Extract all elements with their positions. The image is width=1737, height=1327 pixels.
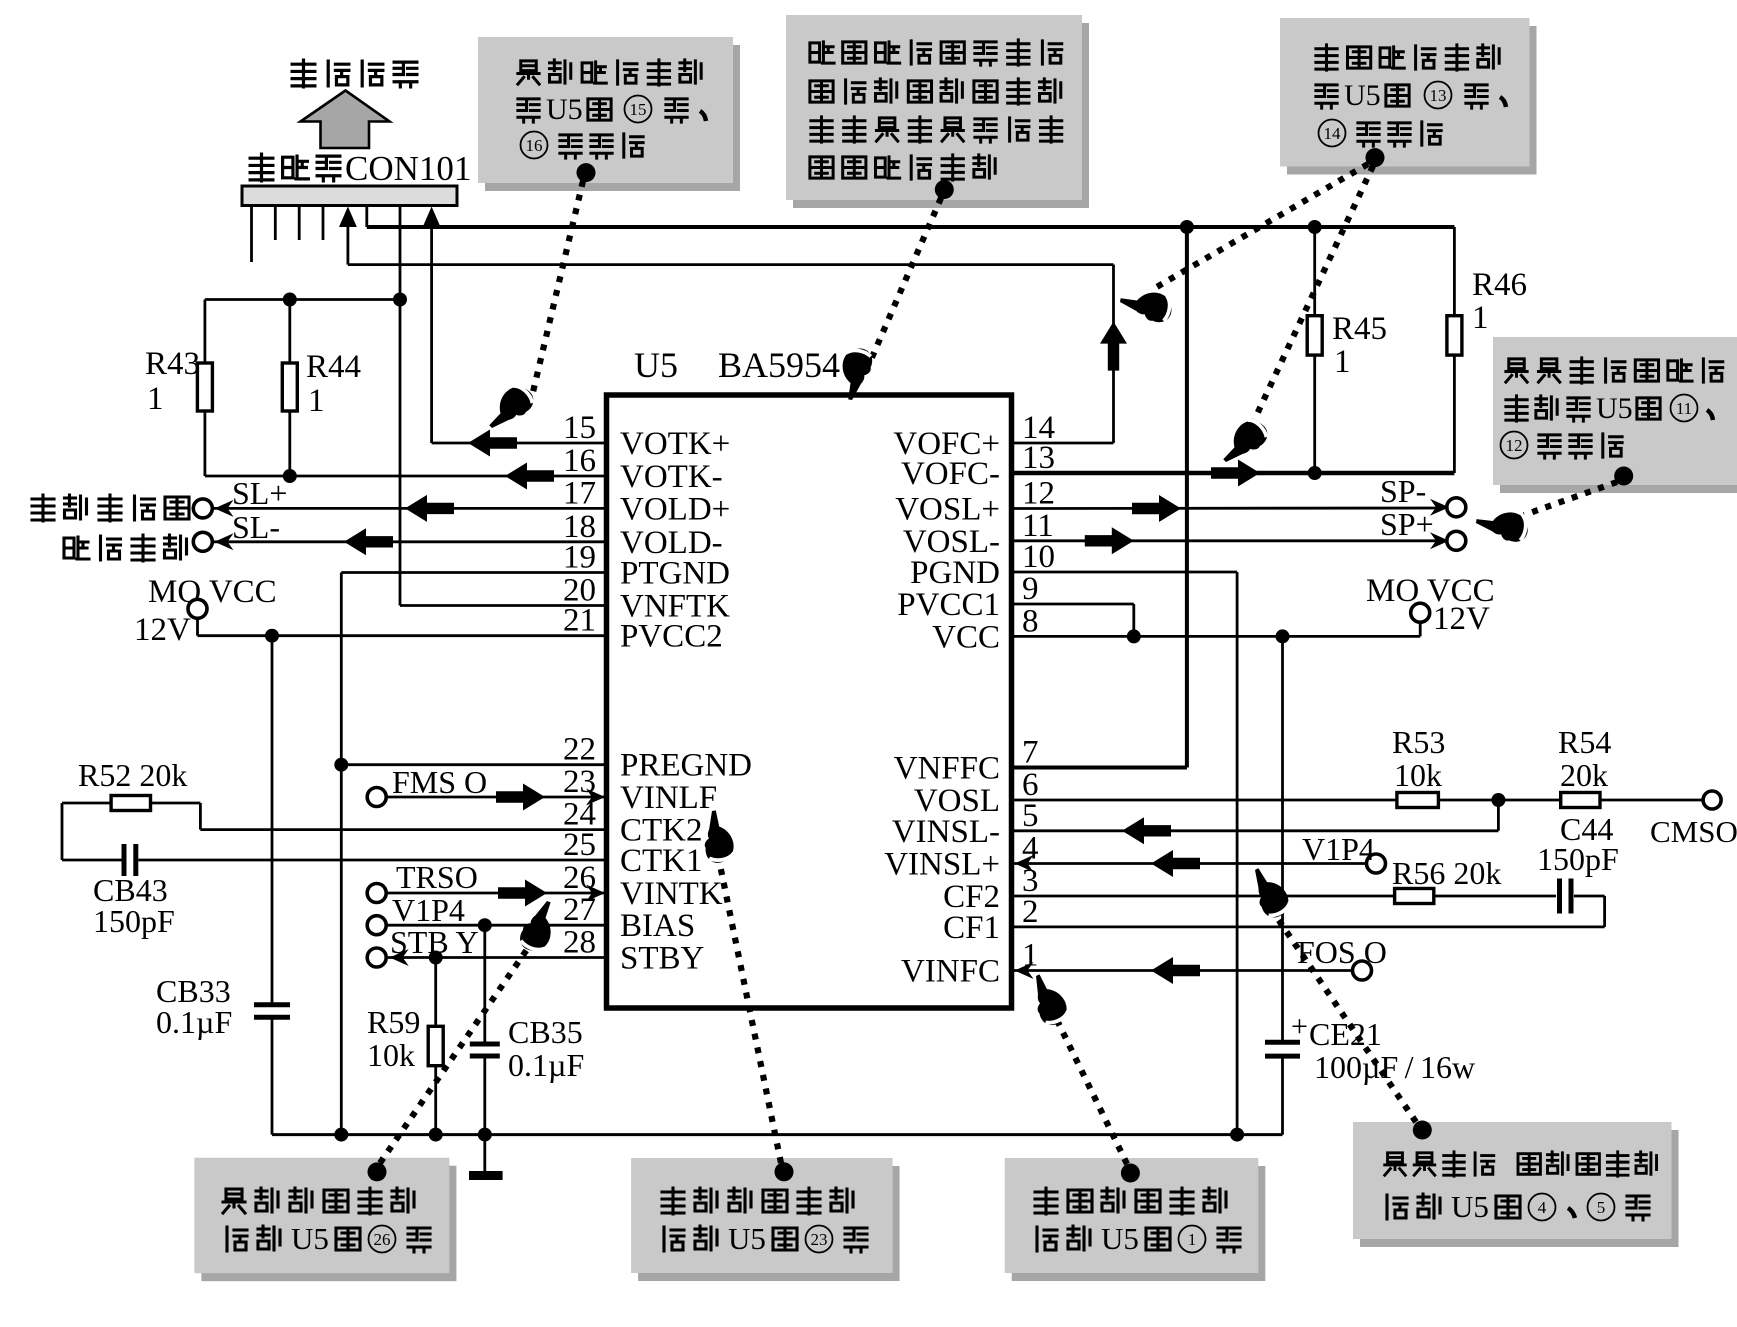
svg-text:13: 13 <box>1430 86 1447 105</box>
svg-text:100µF / 16w: 100µF / 16w <box>1314 1049 1475 1085</box>
leader dot callout 6 <box>775 1162 794 1181</box>
terminal SL+ <box>193 499 212 518</box>
wire pin 9 (PVCC1 to VCC wire) <box>1012 604 1134 636</box>
pointing hand at IC top <box>837 346 874 402</box>
label R59 / 10k <box>367 1004 420 1073</box>
leader dotted line callout 7 <box>1053 1012 1127 1164</box>
svg-text:CON101: CON101 <box>345 149 471 188</box>
capacitor CE21 (electrolytic) <box>1265 636 1300 1134</box>
label: to laser head (接激光头) <box>292 60 417 87</box>
svg-text:1: 1 <box>1188 1230 1197 1249</box>
svg-text:R43: R43 <box>145 346 200 382</box>
arrowhead into pin 26 <box>586 885 605 902</box>
svg-text:1: 1 <box>308 383 325 419</box>
leader dotted line callout 6 <box>719 860 781 1163</box>
svg-text:U5: U5 <box>291 1221 329 1256</box>
pointing hand at pin 26 <box>517 896 562 955</box>
leader dotted line callout 1 <box>533 181 583 392</box>
leader dotted line callout 8 <box>1265 900 1416 1122</box>
label 进给电动机驱动信号 <box>32 495 189 561</box>
wire pin 22 (PREGND to PTGND riser) <box>341 763 606 766</box>
wire pin 2 (CF1) <box>1012 926 1605 929</box>
svg-text:11: 11 <box>1676 399 1692 418</box>
svg-text:12: 12 <box>1022 476 1055 512</box>
label R44 / value 1 <box>306 349 361 419</box>
svg-text:14: 14 <box>1324 124 1342 143</box>
resistor R53 <box>1012 793 1499 808</box>
svg-text:0.1µF: 0.1µF <box>156 1004 232 1040</box>
callout: tracking drive signal from pins 15,16 <box>485 45 740 191</box>
wire pin 16 (VOTK- to R43/R44 bottom rail) <box>205 475 607 478</box>
signal arrow pin 16 <box>505 463 554 490</box>
arrowhead into pin 23 <box>586 789 605 806</box>
terminal FOS O <box>1353 961 1372 980</box>
signal arrow pin 14 (up) <box>1100 322 1127 371</box>
ground rail (bottom bus) <box>272 1133 1283 1136</box>
arrowhead at SL- <box>215 533 234 550</box>
wire: top bus (CON101 to R46) <box>367 225 1455 229</box>
wire pin 10 (PGND riser to ground rail) <box>1012 572 1238 1135</box>
junction R45 bottom <box>1308 466 1322 480</box>
svg-text:16: 16 <box>563 443 596 479</box>
wire pin 4 (VINSL+ from V1P4) <box>1012 862 1367 865</box>
wire pin 25 (CTK1 to CB43) <box>138 859 606 862</box>
leader dotted line callout 4 <box>1524 482 1617 515</box>
svg-text:U5: U5 <box>728 1221 766 1256</box>
leader dot callout 4 <box>1614 467 1633 486</box>
callout: focus drive signal from pins 13,14 <box>1287 26 1537 175</box>
leader dot callout 5 <box>368 1162 387 1181</box>
svg-text:FOS O: FOS O <box>1297 934 1387 970</box>
svg-text:19: 19 <box>563 540 596 576</box>
leader dotted line callout 5 <box>380 948 528 1163</box>
svg-text:23: 23 <box>811 1230 828 1249</box>
signal arrow pin 13 <box>1211 460 1260 487</box>
svg-text:20k: 20k <box>1560 757 1608 793</box>
svg-text:25: 25 <box>563 827 596 863</box>
junction pin21/CB33 branch <box>265 629 279 643</box>
svg-text:R54: R54 <box>1558 724 1611 760</box>
resistor R43 <box>197 300 212 477</box>
junction pin9/pin8 <box>1127 629 1141 643</box>
svg-text:VINFC: VINFC <box>901 954 1000 990</box>
svg-text:22: 22 <box>563 732 596 768</box>
svg-text:SL+: SL+ <box>232 475 287 511</box>
signal arrow pin 12 <box>1132 495 1181 522</box>
signal arrow pin 26 <box>498 880 547 907</box>
terminal SP+ <box>1447 531 1466 550</box>
capacitor CB33 <box>254 636 290 1135</box>
svg-text:CF1: CF1 <box>943 910 1000 946</box>
wire pin 13 (VOFC- to R45/R46, thick) <box>1012 471 1455 476</box>
svg-text:15: 15 <box>630 100 647 119</box>
resistor R54 <box>1498 793 1702 808</box>
wire pin 17 (VOLD+ to SL+) <box>213 507 607 510</box>
arrowhead at SL+ <box>215 500 234 517</box>
svg-text:BIAS: BIAS <box>620 908 695 944</box>
svg-text:PTGND: PTGND <box>620 556 730 592</box>
svg-text:10k: 10k <box>367 1037 415 1073</box>
svg-text:VOTK-: VOTK- <box>620 459 723 495</box>
svg-text:1: 1 <box>1472 300 1489 336</box>
svg-text:17: 17 <box>563 475 596 511</box>
wire pin 24 (CTK2 to R52) <box>200 803 606 830</box>
svg-text:7: 7 <box>1022 735 1039 771</box>
svg-text:12: 12 <box>1506 436 1523 455</box>
terminal V1P4 (right) <box>1367 854 1386 873</box>
wire pin 12 (VOSL+ to SP-) <box>1012 507 1447 510</box>
svg-text:R44: R44 <box>306 349 361 385</box>
svg-text:PREGND: PREGND <box>620 748 752 784</box>
wire pin 27 (BIAS from V1P4) <box>387 924 607 927</box>
wire pin 19 (PTGND down to ground rail) <box>341 573 606 1135</box>
junction R53/R54 <box>1491 793 1505 807</box>
junction R44 top <box>283 293 297 307</box>
svg-text:CMSO: CMSO <box>1650 814 1737 849</box>
callout: tracking control signal into pin 26 <box>201 1166 456 1282</box>
junction PTGND at rail <box>334 1128 348 1142</box>
up arrow into CON101 (from pin 14 bus) <box>339 207 357 228</box>
connector CON101 pin stubs <box>252 206 324 262</box>
pointing hand at SP+ <box>1474 508 1530 544</box>
terminal FMS O <box>367 788 386 807</box>
svg-text:U5: U5 <box>1451 1189 1489 1224</box>
svg-text:16: 16 <box>526 136 543 155</box>
label CB33 / 0.1uF <box>156 973 232 1040</box>
label: connector 接插件CON101 <box>250 149 471 188</box>
svg-text:1: 1 <box>1334 344 1351 380</box>
svg-text:150pF: 150pF <box>1537 841 1619 877</box>
junction pin27/CB35 branch <box>478 918 492 932</box>
svg-text:PVCC2: PVCC2 <box>620 619 723 655</box>
signal arrow pin 23 <box>496 784 545 811</box>
label R54 / 20k <box>1558 724 1611 793</box>
svg-text:V1P4: V1P4 <box>392 892 465 928</box>
svg-text:VCC: VCC <box>932 619 1000 655</box>
callout: feed control signal into pin 23 <box>638 1166 900 1281</box>
label C44 / 150pF <box>1537 811 1619 877</box>
signal arrow pin 11 <box>1085 527 1134 554</box>
ground symbol <box>469 1135 503 1176</box>
wire pin 8 (VCC to MO VCC right) <box>1012 622 1421 636</box>
leader dotted line callout 3a <box>1155 164 1368 288</box>
svg-text:5: 5 <box>1022 798 1039 834</box>
svg-text:R56 20k: R56 20k <box>1392 855 1501 891</box>
svg-text:VOTK+: VOTK+ <box>620 426 730 462</box>
signal arrow pin 15 <box>468 430 517 457</box>
svg-text:PGND: PGND <box>910 555 1000 591</box>
resistor R46 <box>1447 227 1462 473</box>
leader dot callout 1 <box>577 163 596 182</box>
svg-text:VINLF: VINLF <box>620 780 717 816</box>
arrowhead at STB Y <box>390 949 409 966</box>
leader dotted line callout 2 <box>870 198 941 362</box>
svg-text:13: 13 <box>1022 440 1055 476</box>
svg-text:R59: R59 <box>367 1004 420 1040</box>
resistor R44 <box>282 300 297 477</box>
leader dot callout 7 <box>1121 1164 1140 1183</box>
svg-text:U5: U5 <box>546 93 583 126</box>
IC U5 BA5954 body <box>607 395 1012 1008</box>
terminal MO VCC 12V (right) <box>1411 603 1430 622</box>
junction CE21 top <box>1276 629 1290 643</box>
terminal TRSO <box>367 884 386 903</box>
label +CE21 / 100uF/16w <box>1291 1010 1475 1085</box>
svg-text:V1P4: V1P4 <box>1302 831 1375 867</box>
arrowhead at SP+ <box>1430 532 1449 549</box>
label CB43 / 150pF <box>93 872 175 939</box>
svg-text:9: 9 <box>1022 571 1039 607</box>
junction R59 at rail <box>429 1128 443 1142</box>
label R46 / value 1 <box>1472 267 1527 336</box>
junction pin28/R59 branch <box>429 951 443 965</box>
terminal CMSO <box>1703 791 1721 809</box>
svg-text:4: 4 <box>1538 1198 1547 1217</box>
svg-text:U5: U5 <box>634 345 678 385</box>
arrowhead into pin 1 <box>1015 962 1034 979</box>
terminal V1P4 (left) <box>367 916 386 935</box>
resistor R52 <box>62 796 200 811</box>
wire pin 23 (VINLF from FMS O) <box>387 796 607 799</box>
wire: CON101 stub to top bus <box>365 206 368 228</box>
svg-text:10: 10 <box>1022 539 1055 575</box>
svg-text:12V: 12V <box>134 612 191 648</box>
wire: CON101 long pin down to pin 20 <box>399 206 402 606</box>
leader dot callout 3 <box>1366 148 1385 167</box>
svg-text:28: 28 <box>563 925 596 961</box>
capacitor CB35 <box>470 925 500 1134</box>
arrowhead at SP- <box>1430 499 1449 516</box>
svg-text:R45: R45 <box>1332 311 1387 347</box>
svg-text:+: + <box>1291 1010 1308 1043</box>
svg-text:VINTK: VINTK <box>620 876 723 912</box>
arrowhead into pin 4 <box>1015 855 1034 872</box>
wire: R43/R44 top rail <box>205 298 400 301</box>
callout: servo drive IC description <box>793 23 1089 208</box>
label R43 / value 1 <box>145 346 200 417</box>
svg-text:MO VCC: MO VCC <box>148 574 277 610</box>
pointing hand at pins 4/5 wires <box>1243 862 1294 922</box>
label R53 / 10k <box>1392 724 1445 793</box>
wire pin 20 (VNFTK to CON101 long pin) <box>400 604 607 607</box>
svg-text:U5: U5 <box>1101 1221 1139 1256</box>
leader dotted line callout 3b <box>1244 166 1373 442</box>
svg-text:CE21: CE21 <box>1309 1016 1382 1052</box>
svg-text:PVCC1: PVCC1 <box>897 587 1000 623</box>
svg-text:0.1µF: 0.1µF <box>508 1047 584 1083</box>
svg-text:10k: 10k <box>1394 757 1442 793</box>
junction on R43/R44 top rail at long pin <box>393 293 407 307</box>
terminal STB Y <box>367 948 386 967</box>
callout: spindle motor drive signal from pins 11,12 <box>1500 345 1737 493</box>
callout: focus control signal into pin 1 <box>1012 1166 1266 1281</box>
svg-text:26: 26 <box>374 1230 391 1249</box>
svg-text:VINSL+: VINSL+ <box>884 847 1000 883</box>
svg-text:SP-: SP- <box>1380 473 1426 509</box>
label R45 / value 1 <box>1332 311 1387 380</box>
junction top bus / R45 <box>1308 220 1322 234</box>
svg-text:VOSL+: VOSL+ <box>895 492 1000 528</box>
svg-text:VOFC-: VOFC- <box>901 456 1000 492</box>
svg-text:SP+: SP+ <box>1380 506 1434 542</box>
wire pin 1 (VINFC from FOS O) <box>1012 969 1353 972</box>
signal arrow pin 5 <box>1122 817 1171 844</box>
wire pin 11 (VOSL- to SP+) <box>1012 539 1447 542</box>
wire pin 18 (VOLD- to SL-) <box>213 540 607 543</box>
svg-text:SL-: SL- <box>232 509 280 545</box>
pointing hand at pin 1 <box>1024 969 1072 1029</box>
signal arrow pin 18 <box>344 528 393 555</box>
wire pin 28 (STBY to STB Y) <box>388 956 607 959</box>
junction pin22 on PTGND riser <box>334 758 348 772</box>
wire pin 15 (VOTK+ to CON101 riser) <box>432 225 607 443</box>
pointing hand at pin 23 <box>699 808 736 864</box>
svg-text:BA5954: BA5954 <box>718 345 840 385</box>
svg-text:U5: U5 <box>1596 392 1633 425</box>
svg-text:12V: 12V <box>1433 601 1490 637</box>
callout: spindle motor control signal into pins 4,5 <box>1360 1130 1679 1247</box>
wire: second bus (CON101 to pin 14 riser) <box>348 224 1114 265</box>
svg-text:8: 8 <box>1022 603 1039 639</box>
svg-text:R46: R46 <box>1472 267 1527 303</box>
junction CB35 at rail <box>478 1128 492 1142</box>
svg-text:150pF: 150pF <box>93 903 175 939</box>
svg-text:21: 21 <box>563 603 596 639</box>
signal arrow pin 1 <box>1151 957 1200 984</box>
svg-text:U5: U5 <box>1344 79 1381 112</box>
svg-text:R53: R53 <box>1392 724 1445 760</box>
wire pin 5 (VINSL- from R53/R54 junction) <box>1012 800 1499 831</box>
resistor R59 <box>428 958 443 1135</box>
svg-text:FMS O: FMS O <box>392 764 487 800</box>
pointing hand at pin 13 wire <box>1215 414 1272 471</box>
svg-text:5: 5 <box>1597 1198 1606 1217</box>
block arrow to laser head <box>301 91 390 149</box>
up arrow into CON101 (from pin 15 wire) <box>423 207 441 228</box>
svg-text:CB35: CB35 <box>508 1014 583 1050</box>
wire pin 26 (VINTK from TRSO) <box>387 892 607 895</box>
leader dot callout 8 <box>1413 1121 1432 1140</box>
svg-text:VOLD+: VOLD+ <box>620 491 730 527</box>
svg-text:VNFFC: VNFFC <box>894 751 1000 787</box>
pointing hand at pin 14 riser <box>1118 287 1174 324</box>
terminal SP- <box>1447 498 1466 517</box>
svg-text:CTK1: CTK1 <box>620 843 703 879</box>
connector CON101 body <box>242 186 457 206</box>
leader dot callout 2 <box>935 180 954 199</box>
svg-text:STBY: STBY <box>620 941 704 977</box>
svg-text:R52 20k: R52 20k <box>78 757 187 793</box>
junction R44 bottom on pin16 rail <box>283 469 297 483</box>
terminal SL- <box>193 532 212 551</box>
svg-text:TRSO: TRSO <box>396 859 478 895</box>
wire pin 14 (VOFC+ riser to second bus) <box>1012 265 1114 443</box>
resistor R45 <box>1307 227 1322 473</box>
svg-text:VINSL-: VINSL- <box>892 814 1000 850</box>
svg-text:1: 1 <box>147 381 164 417</box>
pointing hand at pin 15 <box>481 380 538 437</box>
wire pin 3 (CF2 through R56 and C44) <box>1012 879 1605 927</box>
label CB35 / 0.1uF <box>508 1014 584 1083</box>
junction PGND riser at rail <box>1230 1128 1244 1142</box>
capacitor CB43 <box>62 803 136 876</box>
wire pin 7 (VNFFC riser to top bus, thick) <box>1012 227 1187 768</box>
junction top bus / pin7 riser <box>1180 220 1194 234</box>
svg-text:15: 15 <box>563 410 596 446</box>
terminal MO VCC 12V (left) <box>188 599 207 618</box>
signal arrow pin 4 <box>1151 850 1200 877</box>
svg-text:2: 2 <box>1022 894 1039 930</box>
wire pin 21 (PVCC2 to MO VCC) <box>198 618 607 636</box>
signal arrow pin 17 <box>405 495 454 522</box>
